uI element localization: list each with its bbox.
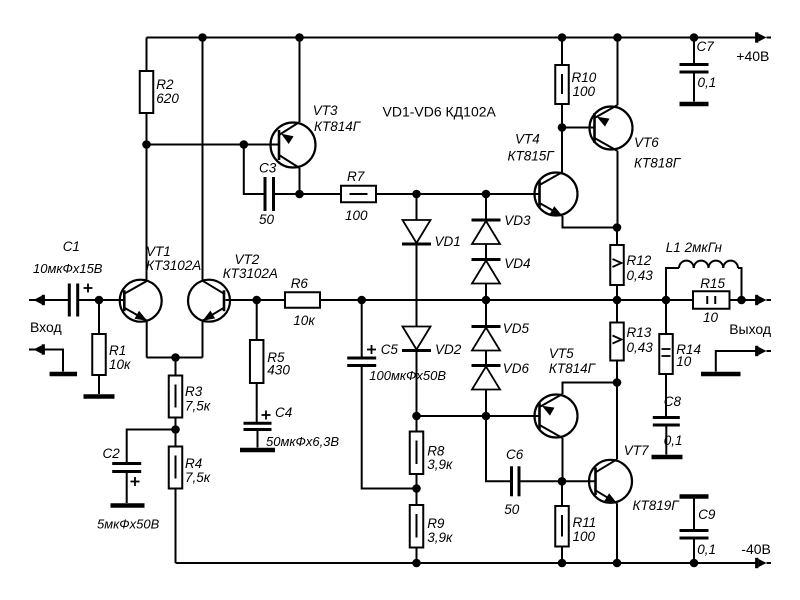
transistor VT2 bbox=[188, 280, 230, 322]
svg-text:КТ814Г: КТ814Г bbox=[314, 119, 362, 134]
resistor R5 bbox=[256, 300, 258, 340]
wire: VT4 collector riser bbox=[561, 128, 563, 174]
svg-text:VT6: VT6 bbox=[634, 135, 659, 150]
wire: VD3 to VD4 bbox=[485, 244, 487, 260]
wire: C3 to VT3 collector node bbox=[274, 193, 300, 195]
diode VD2 bbox=[403, 327, 431, 350]
capacitor C5 bbox=[347, 357, 376, 360]
wire: C6 branch bbox=[486, 416, 512, 481]
junction: VT3 collector node bbox=[295, 190, 304, 199]
svg-text:C3: C3 bbox=[259, 161, 277, 176]
svg-text:КТ815Г: КТ815Г bbox=[508, 149, 556, 164]
junction: VT2 base/R5/R6 node bbox=[252, 296, 261, 305]
junction: R11 at -40V rail bbox=[558, 559, 567, 568]
transistor VT7 bbox=[589, 460, 632, 503]
svg-text:3,9к: 3,9к bbox=[427, 530, 453, 545]
svg-text:+40В: +40В bbox=[736, 48, 769, 64]
svg-text:-40В: -40В bbox=[741, 541, 771, 557]
wire: C5 top lead bbox=[361, 300, 363, 358]
svg-text:VT4: VT4 bbox=[515, 132, 540, 147]
svg-text:7,5к: 7,5к bbox=[185, 399, 211, 414]
polarity + (C1) bbox=[84, 287, 93, 289]
svg-text:Вход: Вход bbox=[30, 319, 62, 335]
wire: VT4 emitter to output node bbox=[563, 216, 618, 228]
svg-text:КТ3102А: КТ3102А bbox=[146, 258, 201, 273]
junction: C7 at +40V rail bbox=[690, 33, 699, 42]
svg-text:100: 100 bbox=[573, 84, 596, 99]
transistor VT4 bbox=[535, 173, 578, 216]
capacitor C6 bbox=[510, 466, 513, 496]
svg-text:100мкФх50В: 100мкФх50В bbox=[369, 368, 446, 383]
svg-text:0,1: 0,1 bbox=[664, 433, 683, 448]
wire: C3 left branch bbox=[244, 145, 265, 195]
svg-text:3,9к: 3,9к bbox=[427, 457, 453, 472]
svg-text:VT3: VT3 bbox=[313, 103, 338, 118]
wire: VD4 anode to mid line bbox=[485, 284, 487, 301]
junction: VT6 emitter at +40V rail bbox=[613, 33, 622, 42]
resistor R4 bbox=[175, 430, 177, 447]
svg-text:R11: R11 bbox=[573, 515, 597, 530]
junction: node A / C3 tap bbox=[240, 140, 249, 149]
svg-text:10мкФх15В: 10мкФх15В bbox=[33, 261, 103, 276]
ground: C2 bbox=[111, 503, 145, 508]
wire: VT7 emitter to -40V rail bbox=[616, 503, 618, 563]
wire: VT2 emitter drop bbox=[202, 321, 204, 358]
svg-text:VD3: VD3 bbox=[504, 213, 531, 228]
svg-text:R9: R9 bbox=[427, 516, 445, 531]
junction: R2/VT1 collector bbox=[142, 140, 151, 149]
svg-text:VT1: VT1 bbox=[146, 244, 171, 259]
capacitor C4 bbox=[244, 422, 272, 425]
svg-text:C2: C2 bbox=[103, 446, 121, 461]
junction: VT4 emitter/VT6 collector/R12 bbox=[613, 223, 622, 232]
junction: VD1 string top bbox=[412, 190, 421, 199]
wire: VT3 emitter to +40V rail bbox=[299, 38, 301, 123]
junction: R1 tap bbox=[95, 296, 104, 305]
svg-text:КТ818Г: КТ818Г bbox=[634, 156, 682, 171]
polarity + (C2) bbox=[131, 481, 140, 483]
svg-text:100: 100 bbox=[573, 529, 596, 544]
svg-text:КТ3102А: КТ3102А bbox=[223, 266, 278, 281]
junction: R8/R9/C5 node bbox=[412, 484, 421, 493]
capacitor C1 bbox=[68, 284, 71, 317]
transistor VT5 bbox=[535, 395, 578, 438]
resistor R3 bbox=[175, 358, 177, 376]
ground: C4 bbox=[240, 448, 275, 453]
transistor VT3 bbox=[271, 123, 316, 168]
wire: VT5 collector drop bbox=[562, 438, 564, 481]
capacitor C8 bbox=[653, 416, 680, 419]
svg-text:R10: R10 bbox=[572, 70, 597, 85]
wire: C4 to ground bbox=[257, 430, 259, 448]
wire: VD6 anode to lower bias node bbox=[485, 390, 487, 417]
svg-text:VD4: VD4 bbox=[504, 256, 530, 271]
junction: emitters/R3 bbox=[171, 353, 180, 362]
svg-text:C9: C9 bbox=[698, 507, 716, 522]
wire: VT6 emitter to +40V rail bbox=[617, 38, 619, 106]
wire: VT3 collector to R7 bbox=[300, 193, 342, 195]
wire: C1 to VT1 base bbox=[78, 299, 125, 301]
svg-text:VT7: VT7 bbox=[624, 443, 649, 458]
svg-text:VD1: VD1 bbox=[435, 234, 461, 249]
svg-text:100: 100 bbox=[345, 208, 368, 223]
junction: VD2/R8 node bbox=[412, 412, 421, 421]
power +40V arrow bbox=[767, 37, 772, 39]
junction: R15/L1 output node bbox=[737, 296, 746, 305]
resistor R1 bbox=[98, 300, 100, 334]
junction: VT5 collector/C6/R11/VT7 base bbox=[558, 477, 567, 486]
power -40V arrow bbox=[767, 562, 772, 564]
wire: C2 branch bbox=[127, 430, 176, 464]
ground: output terminal bbox=[701, 372, 741, 377]
svg-text:50мкФх6,3В: 50мкФх6,3В bbox=[266, 434, 339, 449]
junction: R9 at -40V rail bbox=[412, 559, 421, 568]
svg-text:VD5: VD5 bbox=[503, 321, 530, 336]
capacitor C3 bbox=[264, 177, 267, 211]
svg-text:5мкФх50В: 5мкФх50В bbox=[97, 517, 160, 532]
wire: feedback line bbox=[362, 299, 617, 301]
transistor VT6 bbox=[590, 107, 633, 150]
resistor R12 bbox=[616, 228, 618, 246]
wire: VT1 emitter drop bbox=[146, 321, 148, 358]
wire: mid line to VD5 bbox=[485, 300, 487, 327]
svg-text:10к: 10к bbox=[109, 357, 131, 372]
resistor R13 bbox=[616, 300, 618, 323]
svg-text:R6: R6 bbox=[291, 276, 309, 291]
resistor R11 bbox=[561, 481, 563, 506]
junction: R10/VT4 collector/VT6 base bbox=[558, 123, 567, 132]
capacitor C2 bbox=[112, 462, 141, 465]
svg-text:C4: C4 bbox=[275, 405, 292, 420]
svg-text:430: 430 bbox=[267, 363, 290, 378]
ground: C8 bbox=[652, 455, 683, 460]
junction: VD6/C6 node bbox=[482, 412, 491, 421]
svg-text:R4: R4 bbox=[185, 456, 202, 471]
wire: C2 to ground bbox=[126, 472, 128, 504]
junction: C9 at -40V rail bbox=[690, 559, 699, 568]
resistor R15 bbox=[666, 299, 693, 301]
wire: emitter join bbox=[147, 357, 203, 359]
capacitor C9 bbox=[693, 497, 695, 531]
svg-text:R1: R1 bbox=[109, 343, 126, 358]
wire: +40V top rail bbox=[147, 37, 757, 39]
svg-text:R3: R3 bbox=[185, 384, 203, 399]
svg-text:0,43: 0,43 bbox=[627, 268, 654, 283]
junction: VT3 emitter at +40V rail bbox=[295, 33, 304, 42]
junction: R3/R4/C2 node bbox=[171, 425, 180, 434]
wire: VT2 base lead bbox=[226, 299, 257, 301]
ground: R1 bbox=[84, 394, 115, 399]
output ground terminal arrow bbox=[767, 350, 772, 352]
inductor L1 bbox=[666, 268, 679, 300]
wire: output line bbox=[617, 299, 666, 301]
svg-text:L1 2мкГн: L1 2мкГн bbox=[666, 240, 723, 255]
diode VD3 bbox=[472, 219, 501, 222]
svg-text:VD2: VD2 bbox=[435, 342, 462, 357]
polarity + (C5) bbox=[367, 349, 376, 351]
wire: VT5 emitter to R13 node bbox=[563, 383, 618, 395]
svg-text:КТ814Г: КТ814Г bbox=[549, 361, 597, 376]
wire: VT2 collector riser bbox=[202, 38, 204, 281]
ground: C7 bbox=[680, 102, 709, 107]
svg-text:C1: C1 bbox=[63, 239, 80, 254]
output terminal arrow bbox=[742, 299, 757, 301]
svg-text:R13: R13 bbox=[627, 325, 652, 340]
junction: R13/VT5 emitter/VT7 collector bbox=[613, 378, 622, 387]
svg-text:0,1: 0,1 bbox=[698, 75, 717, 90]
diode VD5 bbox=[472, 325, 501, 328]
svg-text:7,5к: 7,5к bbox=[185, 470, 211, 485]
wire: VT1 collector riser bbox=[146, 145, 148, 281]
svg-text:10: 10 bbox=[703, 310, 719, 325]
svg-text:C6: C6 bbox=[506, 447, 524, 462]
svg-text:R7: R7 bbox=[347, 169, 365, 184]
svg-text:R12: R12 bbox=[627, 253, 652, 268]
wire: VD5 to VD6 bbox=[485, 351, 487, 366]
wire: node A horizontal to VT3 base bbox=[147, 144, 280, 146]
svg-text:620: 620 bbox=[156, 91, 179, 106]
junction: R12/R13 at output line bbox=[613, 296, 622, 305]
ground: input terminal bbox=[50, 372, 78, 377]
wire: VT6 collector drop bbox=[617, 151, 619, 228]
wire: VD1 cathode to VD2 anode bbox=[416, 244, 418, 327]
wire: VT3 collector drop bbox=[299, 168, 301, 194]
ground: C9 top bar bbox=[680, 494, 709, 499]
svg-text:R15: R15 bbox=[700, 276, 725, 291]
svg-text:50: 50 bbox=[259, 212, 275, 227]
svg-text:VT5: VT5 bbox=[549, 346, 574, 361]
capacitor C7 bbox=[693, 38, 695, 65]
wire: VD1 anode lead bbox=[416, 194, 418, 220]
resistor R10 bbox=[561, 38, 563, 66]
resistor R14 bbox=[665, 300, 667, 334]
junction: VT7 emitter at -40V rail bbox=[613, 559, 622, 568]
svg-text:C5: C5 bbox=[381, 342, 399, 357]
wire: C5 bottom branch bbox=[362, 366, 417, 489]
junction: VD3 string top bbox=[482, 190, 491, 199]
svg-text:50: 50 bbox=[504, 502, 520, 517]
svg-text:VT2: VT2 bbox=[235, 252, 260, 267]
diode VD4 bbox=[472, 258, 501, 261]
input ground terminal arrow bbox=[29, 349, 34, 351]
wire: to VT6 base bbox=[562, 127, 595, 129]
wire: VD3 cathode lead bbox=[485, 194, 487, 220]
wire: lower bias line to VT5 base bbox=[417, 415, 540, 417]
resistor R6 bbox=[257, 299, 285, 301]
svg-text:C8: C8 bbox=[664, 394, 682, 409]
svg-text:КТ819Г: КТ819Г bbox=[633, 498, 681, 513]
svg-text:10: 10 bbox=[676, 354, 692, 369]
wire: -40V bottom rail bbox=[176, 562, 757, 564]
svg-text:Выход: Выход bbox=[729, 321, 771, 337]
diode VD1 bbox=[403, 220, 431, 243]
wire: VT7 collector riser bbox=[616, 383, 618, 460]
wire: R7 to VT4 base bbox=[376, 193, 540, 195]
transistor VT1 bbox=[120, 280, 162, 322]
svg-text:VD1-VD6 КД102А: VD1-VD6 КД102А bbox=[383, 104, 497, 120]
svg-text:C7: C7 bbox=[697, 39, 715, 54]
input terminal arrow bbox=[29, 299, 34, 301]
svg-text:0,43: 0,43 bbox=[627, 340, 654, 355]
diode VD6 bbox=[472, 364, 501, 367]
resistor R7 bbox=[341, 186, 376, 203]
wire: C6 to VT7 base bbox=[519, 480, 596, 482]
junction: diode string mid bbox=[482, 296, 491, 305]
polarity + (C4) bbox=[262, 414, 271, 416]
svg-text:0,1: 0,1 bbox=[697, 542, 716, 557]
svg-text:R2: R2 bbox=[156, 77, 174, 92]
resistor R8 bbox=[416, 416, 418, 432]
resistor R9 bbox=[416, 489, 418, 506]
junction: R10 at +40V rail bbox=[558, 33, 567, 42]
junction: L1/R14 node bbox=[662, 296, 671, 305]
wire: C8 to ground bbox=[665, 425, 667, 455]
junction: VT2 collector at +40V rail bbox=[198, 33, 207, 42]
resistor R2 bbox=[146, 38, 148, 72]
wire: VD2 cathode to lower bias node bbox=[416, 351, 418, 417]
svg-text:VD6: VD6 bbox=[503, 361, 530, 376]
junction: R6/C5 node bbox=[357, 296, 366, 305]
svg-text:10к: 10к bbox=[293, 313, 315, 328]
